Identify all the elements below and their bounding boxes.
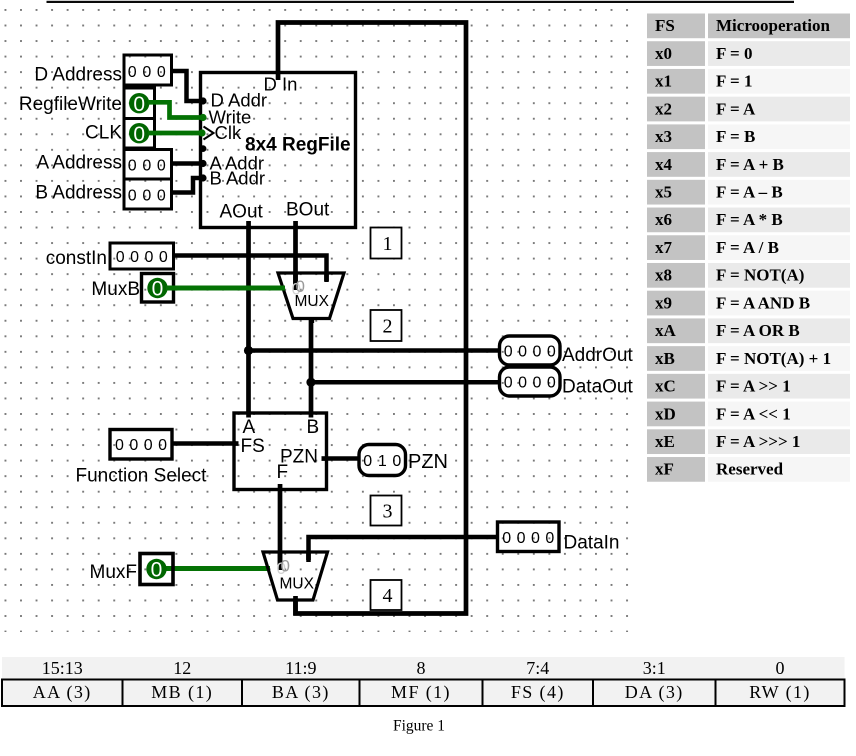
- svg-text:BOut: BOut: [286, 200, 330, 221]
- svg-text:B: B: [307, 417, 320, 438]
- wire CLK green: [148, 131, 200, 136]
- pin Clk green: [198, 129, 205, 136]
- wire D Address to D Addr: [172, 71, 201, 101]
- svg-text:xA: xA: [655, 321, 677, 340]
- svg-text:0 0 0 0: 0 0 0 0: [116, 249, 168, 266]
- svg-text:MB (1): MB (1): [151, 682, 213, 703]
- top rule line: [47, 1, 795, 3]
- wire DataOut: [311, 380, 500, 385]
- input box MuxB: [91, 274, 173, 303]
- svg-text:F: F: [277, 462, 289, 483]
- svg-text:AA (3): AA (3): [33, 682, 92, 703]
- svg-text:7:4: 7:4: [526, 658, 549, 678]
- svg-text:xF: xF: [655, 460, 674, 479]
- svg-text:B Addr: B Addr: [210, 167, 266, 188]
- stub FS left: [233, 441, 239, 446]
- svg-text:0 0 0 0: 0 0 0 0: [504, 375, 556, 392]
- wire F down to MUX F: [278, 489, 283, 570]
- svg-text:FS: FS: [655, 16, 675, 35]
- pin D Addr: [199, 97, 206, 104]
- input box RegfileWrite: [19, 88, 155, 119]
- svg-text:4: 4: [383, 585, 393, 607]
- mux MUXF: [263, 552, 328, 600]
- svg-text:F = A >>> 1: F = A >>> 1: [716, 432, 800, 451]
- svg-text:3: 3: [383, 501, 393, 523]
- input box MuxF: [90, 554, 174, 585]
- junction AOut/AddrOut: [244, 346, 253, 355]
- svg-text:F = NOT(A): F = NOT(A): [716, 266, 804, 285]
- svg-text:0: 0: [776, 658, 785, 678]
- svg-text:0: 0: [151, 559, 163, 582]
- svg-text:0 0 0 0: 0 0 0 0: [502, 530, 554, 547]
- wire DataIn to MUX F input 1: [309, 537, 499, 562]
- stub BOut into MUXB: [293, 273, 298, 289]
- input box DataIn: [498, 522, 620, 554]
- marker box 2: [371, 310, 402, 341]
- svg-text:0: 0: [133, 93, 145, 116]
- svg-text:8: 8: [417, 658, 426, 678]
- wire RegfileWrite green: [148, 102, 201, 117]
- alu FS unit: [234, 413, 327, 490]
- svg-text:DataOut: DataOut: [562, 377, 633, 398]
- svg-text:3:1: 3:1: [643, 658, 666, 678]
- svg-text:Figure 1: Figure 1: [393, 718, 445, 735]
- svg-text:xD: xD: [655, 404, 676, 423]
- wire AOut down to ALU A: [246, 226, 251, 414]
- wire A Address to A Addr: [172, 161, 201, 166]
- input box D Address: [34, 55, 171, 86]
- stub MUXB out: [309, 317, 314, 323]
- svg-text:F = 0: F = 0: [716, 44, 752, 63]
- stub DataIn into MUXF: [306, 552, 311, 560]
- svg-text:0: 0: [133, 123, 145, 146]
- stub MUXF out: [293, 599, 298, 615]
- svg-text:F = A * B: F = A * B: [716, 210, 783, 229]
- regfile U1 8x4 RegFile: [201, 73, 356, 228]
- svg-text:FS: FS: [241, 436, 265, 457]
- svg-text:RegfileWrite: RegfileWrite: [19, 94, 122, 115]
- svg-text:AOut: AOut: [220, 202, 264, 223]
- svg-text:x8: x8: [655, 266, 672, 285]
- junction MUXBout/DataOut: [306, 378, 315, 387]
- svg-text:constIn: constIn: [46, 248, 107, 269]
- svg-text:F = A / B: F = A / B: [716, 238, 779, 257]
- input box Function Select: [76, 430, 208, 487]
- svg-text:xB: xB: [655, 349, 675, 368]
- svg-text:x4: x4: [655, 155, 673, 174]
- output box PZN: [359, 445, 448, 476]
- svg-text:15:13: 15:13: [42, 658, 83, 678]
- pin AOut: [246, 221, 251, 229]
- svg-text:F = A OR B: F = A OR B: [716, 321, 800, 340]
- svg-text:DA (3): DA (3): [625, 682, 684, 703]
- pin unused: [200, 145, 207, 152]
- svg-text:F = NOT(A) + 1: F = NOT(A) + 1: [716, 349, 831, 368]
- marker box 4: [371, 580, 402, 610]
- svg-text:PZN: PZN: [408, 451, 448, 473]
- svg-text:D Address: D Address: [34, 65, 122, 86]
- svg-text:F = A – B: F = A – B: [716, 183, 783, 202]
- svg-text:F = A AND B: F = A AND B: [716, 293, 810, 312]
- svg-text:F = B: F = B: [716, 127, 755, 146]
- svg-text:A Address: A Address: [36, 153, 122, 174]
- svg-text:0 0 0: 0 0 0: [128, 158, 166, 175]
- svg-text:Microoperation: Microoperation: [716, 16, 830, 35]
- svg-text:0 0 0 0: 0 0 0 0: [504, 344, 556, 361]
- svg-text:11:9: 11:9: [285, 658, 316, 678]
- stub F into MUXF: [278, 552, 283, 570]
- wire Function Select to FS: [172, 441, 236, 446]
- pin D In: [276, 72, 281, 80]
- svg-text:MF (1): MF (1): [391, 682, 451, 703]
- input box B Address: [35, 179, 171, 209]
- wire BOut down to MUX B: [293, 226, 298, 290]
- input box A Address: [36, 150, 171, 180]
- stub PZN right: [322, 456, 328, 461]
- pin B Addr: [199, 174, 206, 181]
- wire MUX B out down to ALU B: [309, 317, 314, 414]
- mux MUXB: [278, 273, 344, 319]
- svg-text:CLK: CLK: [85, 123, 122, 144]
- svg-text:A: A: [243, 417, 256, 438]
- svg-text:F = A: F = A: [716, 99, 756, 118]
- wire constIn to MUX B input 1: [173, 256, 327, 283]
- output box DataOut: [500, 367, 634, 398]
- wire MuxF green: [165, 566, 270, 571]
- stub A into FS: [246, 412, 251, 418]
- svg-text:AddrOut: AddrOut: [562, 345, 633, 366]
- svg-text:D In: D In: [264, 74, 298, 95]
- svg-text:BA (3): BA (3): [272, 682, 330, 703]
- wire feedback loop MuxF out to D In: [278, 23, 466, 614]
- svg-text:0 1 0: 0 1 0: [363, 453, 401, 470]
- svg-text:MuxB: MuxB: [91, 279, 140, 300]
- stub B into FS: [309, 412, 314, 418]
- svg-text:0: 0: [152, 278, 164, 301]
- table instruction fields: [2, 657, 845, 680]
- pin Write green: [199, 114, 206, 121]
- table FS/Microoperation: [647, 14, 705, 39]
- wire AddrOut: [249, 348, 501, 353]
- svg-text:x5: x5: [655, 183, 672, 202]
- svg-text:xE: xE: [655, 432, 675, 451]
- pin A Addr: [199, 160, 206, 167]
- marker box 3: [371, 496, 402, 526]
- svg-text:Clk: Clk: [215, 122, 242, 143]
- input box CLK: [85, 119, 154, 149]
- svg-text:0 0 0: 0 0 0: [128, 64, 166, 81]
- pin BOut: [293, 221, 298, 229]
- svg-text:x2: x2: [655, 99, 672, 118]
- svg-text:12: 12: [173, 658, 191, 678]
- svg-text:B Address: B Address: [35, 183, 122, 204]
- svg-text:x7: x7: [655, 238, 673, 257]
- svg-text:DataIn: DataIn: [564, 533, 620, 554]
- svg-text:F = A << 1: F = A << 1: [716, 404, 791, 423]
- svg-text:RW (1): RW (1): [749, 682, 811, 703]
- svg-text:1: 1: [383, 233, 393, 255]
- svg-text:x0: x0: [655, 44, 672, 63]
- svg-text:F = A + B: F = A + B: [716, 155, 784, 174]
- wire MuxB green: [166, 286, 285, 291]
- svg-text:x3: x3: [655, 127, 672, 146]
- svg-text:0 0 0: 0 0 0: [128, 188, 166, 205]
- svg-text:x9: x9: [655, 293, 672, 312]
- svg-text:0 0 0 0: 0 0 0 0: [115, 437, 167, 454]
- input box constIn: [46, 243, 174, 269]
- svg-text:FS (4): FS (4): [511, 682, 565, 703]
- stub constIn into MUXB: [324, 273, 329, 281]
- svg-text:F = A >> 1: F = A >> 1: [716, 377, 791, 396]
- svg-text:F = 1: F = 1: [716, 72, 752, 91]
- svg-text:0: 0: [296, 277, 305, 296]
- svg-text:Function Select: Function Select: [76, 466, 208, 487]
- svg-text:0: 0: [281, 557, 290, 576]
- svg-text:x1: x1: [655, 72, 672, 91]
- marker box 1: [371, 228, 402, 259]
- svg-text:MUX: MUX: [280, 576, 315, 593]
- wire PZN to output box: [326, 456, 359, 461]
- svg-text:xC: xC: [655, 377, 676, 396]
- stub F bottom: [278, 484, 283, 490]
- svg-text:MuxF: MuxF: [90, 562, 138, 583]
- svg-text:2: 2: [383, 316, 393, 338]
- svg-text:x6: x6: [655, 210, 672, 229]
- output box AddrOut: [500, 336, 634, 366]
- wire B Address to B Addr: [172, 178, 201, 193]
- svg-text:Reserved: Reserved: [716, 460, 784, 479]
